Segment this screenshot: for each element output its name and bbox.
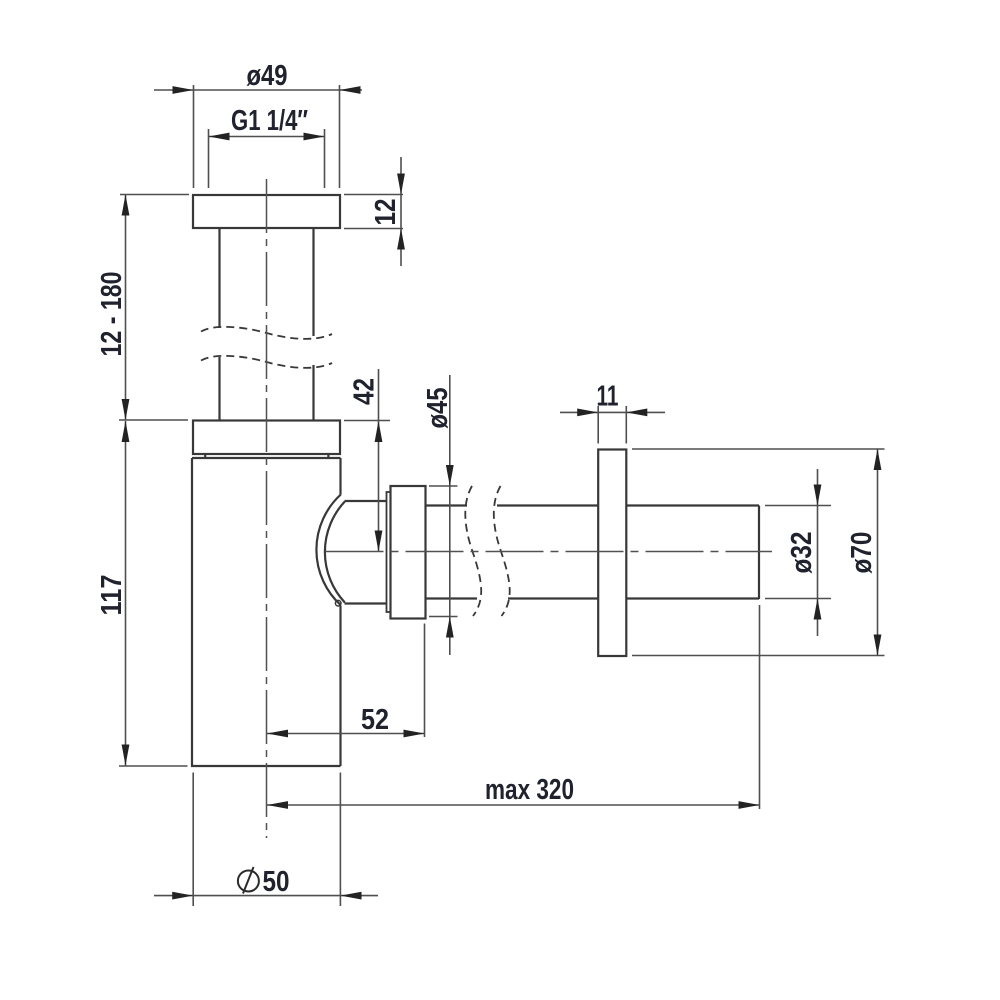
svg-text:42: 42 bbox=[349, 378, 381, 405]
dim 11 line bbox=[560, 411, 665, 413]
pipe end bbox=[758, 506, 760, 600]
o45 arrows (outside) bbox=[446, 465, 454, 486]
svg-text:ø49: ø49 bbox=[247, 60, 288, 92]
dim 12-180 line bbox=[125, 195, 127, 421]
inlet pipe break lower wavy line bbox=[201, 356, 332, 368]
inlet pipe break upper wavy line bbox=[201, 327, 332, 339]
117 arrows (inside) bbox=[122, 421, 130, 442]
horizontal centerline bbox=[326, 551, 773, 553]
svg-text:G1 1/4″: G1 1/4″ bbox=[231, 105, 308, 137]
dim 117 bottom extension bbox=[119, 765, 188, 767]
12-180 arrows (inside) bbox=[122, 195, 130, 216]
o70 arrows (inside) bbox=[874, 449, 882, 470]
dim 52 right extension bbox=[424, 624, 426, 738]
dim d50 line bbox=[154, 895, 378, 897]
dim o45 ticks bbox=[429, 486, 458, 617]
dim max320 line bbox=[267, 804, 760, 806]
max320 arrows (inside, outward) bbox=[267, 801, 288, 809]
outlet pipe break right wavy line bbox=[494, 486, 510, 616]
dim o49 line bbox=[154, 89, 362, 91]
inlet pipe left wall bbox=[218, 228, 220, 421]
elbow bottom fillet bbox=[335, 600, 341, 606]
svg-text:52: 52 bbox=[361, 704, 389, 736]
elbow outer curve bbox=[316, 495, 340, 606]
trap body bbox=[192, 458, 341, 766]
dim d50 extension lines bbox=[193, 773, 340, 907]
11 arrows (outside) bbox=[577, 409, 598, 417]
centerlines bbox=[267, 179, 773, 838]
top flange bbox=[193, 195, 340, 228]
part geometry bbox=[192, 195, 759, 766]
vertical centerline bbox=[266, 179, 268, 838]
dim o49 extension lines bbox=[194, 85, 340, 188]
svg-text:max 320: max 320 bbox=[485, 774, 574, 806]
dim o32 line bbox=[817, 469, 819, 636]
washer bbox=[387, 492, 391, 612]
label d50 diameter symbol bbox=[238, 867, 259, 894]
outlet pipe walls bbox=[426, 506, 760, 599]
dim 52 line bbox=[267, 733, 425, 735]
trap nut flange bbox=[193, 421, 340, 455]
dim 11 extension lines bbox=[598, 406, 626, 444]
dim G1 1/4 extension lines bbox=[209, 129, 325, 188]
12 arrows (outside) bbox=[397, 174, 405, 195]
svg-text:12 - 180: 12 - 180 bbox=[96, 272, 128, 357]
elbow inner curve bbox=[325, 502, 345, 603]
wall flange bbox=[598, 450, 626, 657]
svg-text:ø45: ø45 bbox=[422, 388, 454, 429]
outlet connector walls bbox=[345, 501, 387, 604]
outlet pipe break left wavy line bbox=[465, 486, 481, 616]
svg-text:ø32: ø32 bbox=[786, 532, 818, 574]
dim max320 right extension bbox=[759, 605, 761, 809]
inlet pipe right wall bbox=[312, 228, 314, 421]
d50 arrows (outside) bbox=[172, 892, 193, 900]
dim o70 extension lines bbox=[632, 449, 885, 656]
gasket bbox=[205, 454, 328, 458]
dim 42 top extension bbox=[344, 420, 390, 422]
52 arrows (inside, outward) bbox=[267, 730, 288, 738]
dim G1 1/4 line bbox=[209, 136, 325, 138]
G1 arrows (inside, outward) bbox=[209, 133, 230, 141]
dim 12 extension lines bbox=[344, 195, 403, 229]
dimension lines and extension lines bbox=[119, 85, 885, 906]
svg-text:117: 117 bbox=[96, 575, 128, 616]
svg-text:12: 12 bbox=[370, 199, 402, 226]
dim o32 ticks bbox=[765, 506, 831, 599]
svg-text:11: 11 bbox=[597, 381, 619, 413]
dim 12-180 extension lines bbox=[119, 195, 189, 421]
dim 12 line bbox=[400, 157, 402, 266]
arrowheads bbox=[122, 86, 882, 899]
compression nut bbox=[391, 486, 426, 619]
svg-text:50: 50 bbox=[263, 866, 290, 898]
break lines bbox=[201, 327, 510, 616]
42 arrows (inside) bbox=[375, 421, 383, 442]
svg-text:ø70: ø70 bbox=[846, 532, 878, 574]
dim 42 line bbox=[378, 369, 380, 552]
dim 117 line bbox=[125, 421, 127, 766]
dim o45 line bbox=[449, 375, 451, 655]
dim o70 line bbox=[877, 449, 879, 656]
o49 arrows (outside) bbox=[173, 86, 194, 94]
o32 arrows (outside) bbox=[814, 485, 822, 506]
